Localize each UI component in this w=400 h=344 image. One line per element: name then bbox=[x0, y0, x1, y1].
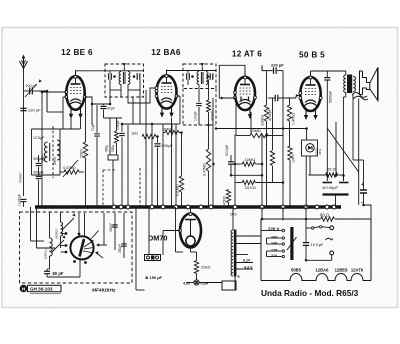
DM70 anode bar bbox=[185, 219, 196, 221]
tube V2 12BA6 grids bbox=[161, 86, 172, 88]
svg-text:MF461kHz: MF461kHz bbox=[92, 288, 116, 294]
DM70 wires bbox=[190, 207, 192, 213]
svg-text:OSCILL: OSCILL bbox=[44, 248, 48, 259]
resistor 33Kohm bbox=[242, 180, 255, 184]
switch arm diagonal bbox=[63, 160, 78, 177]
IF2 lower dashed section bbox=[182, 89, 184, 126]
svg-text:1kΩ: 1kΩ bbox=[131, 132, 138, 136]
wire down from coupling cap bbox=[282, 71, 284, 136]
IF2 secondary coil bbox=[206, 72, 208, 85]
svg-text:10MΩ: 10MΩ bbox=[245, 157, 256, 162]
svg-text:20KΩ: 20KΩ bbox=[53, 156, 57, 165]
wire grid coupling down bbox=[234, 135, 236, 208]
wire screen bbox=[91, 104, 93, 124]
wire 12AT6 cathode down bbox=[250, 112, 252, 135]
svg-text:110: 110 bbox=[271, 254, 277, 258]
svg-text:330µ: 330µ bbox=[111, 145, 115, 152]
tube V4 50B5 cathode bbox=[305, 100, 316, 103]
capacitor 100KpF antenna bottom bbox=[21, 198, 27, 200]
svg-text:70pF: 70pF bbox=[91, 123, 95, 131]
filament ballast coil bbox=[231, 230, 233, 276]
IF1 trimmer cap left bbox=[108, 73, 110, 80]
svg-text:38%: 38% bbox=[318, 149, 322, 155]
tube V1 12BE6 side pins bbox=[65, 91, 68, 94]
tuning arrow top bbox=[92, 231, 99, 239]
svg-text:12AT6: 12AT6 bbox=[351, 268, 364, 273]
wire 12BE6 grid1 to osc bbox=[41, 92, 43, 207]
resistor 0.47Mohm osc bbox=[64, 170, 79, 174]
right side caps of tuning box bbox=[114, 213, 116, 250]
antenna coil bbox=[61, 222, 63, 236]
badge underline bbox=[30, 293, 61, 295]
tuning gang circle bbox=[70, 236, 93, 259]
vertical 12BA6 heater wires bbox=[171, 118, 173, 207]
svg-text:5000pF: 5000pF bbox=[329, 90, 333, 103]
tube V1 12BE6 cathode bbox=[70, 99, 81, 102]
IF2 primary coil bbox=[197, 72, 199, 85]
svg-text:88 Ω: 88 Ω bbox=[320, 213, 329, 218]
svg-text:AEREO: AEREO bbox=[55, 228, 59, 239]
oscillator box bbox=[32, 128, 81, 130]
svg-text:10 KµF: 10 KµF bbox=[311, 242, 325, 247]
svg-text:250pF: 250pF bbox=[118, 244, 122, 253]
speaker frame bbox=[360, 71, 363, 95]
tap 4.3V bbox=[236, 268, 253, 270]
badge box bbox=[28, 285, 62, 291]
tube V3 12AT6 envelope bbox=[235, 77, 255, 110]
speaker return wires bbox=[352, 95, 354, 161]
tube V2 12BA6 cathode bbox=[161, 98, 172, 101]
wires mid rails bbox=[151, 124, 153, 207]
tube V4 50B5 grids bbox=[305, 88, 316, 90]
osc coil dashed bbox=[52, 126, 54, 178]
svg-text:220 pF: 220 pF bbox=[28, 108, 41, 113]
rectifier bbox=[302, 140, 318, 156]
wire from plate supply bbox=[335, 122, 337, 175]
wire 12BA6 screen bbox=[177, 95, 181, 97]
tube V3 12AT6 top pin bbox=[244, 76, 247, 79]
svg-text:12 AT 6: 12 AT 6 bbox=[232, 50, 262, 59]
svg-text:125: 125 bbox=[271, 249, 277, 253]
cap 50KpF bbox=[155, 143, 161, 145]
resistor 22Kohm bbox=[83, 142, 87, 158]
wire grid2 bbox=[46, 91, 48, 112]
output transformer core bbox=[347, 75, 352, 94]
svg-text:12,5µF: 12,5µF bbox=[33, 136, 45, 140]
ballast taps bbox=[236, 235, 261, 237]
wires near 50B5 cathode bbox=[268, 135, 283, 137]
phono box bbox=[222, 281, 236, 290]
IF1 trimmer cap right bbox=[136, 73, 138, 80]
volume wiper arrow with 5000pF bbox=[212, 98, 214, 207]
svg-text:4,3 V: 4,3 V bbox=[244, 266, 253, 270]
svg-text:140: 140 bbox=[271, 242, 277, 246]
rail y118 left bbox=[104, 117, 123, 119]
wire 12AT6 plate to coupling cap bbox=[262, 65, 273, 70]
wire 50B5 grid bbox=[296, 94, 299, 97]
tube V1 12BE6 envelope bbox=[66, 76, 84, 110]
extra verticals bbox=[171, 118, 173, 124]
tuning arrow lower bbox=[97, 253, 104, 258]
tuning gang rotor bar bbox=[80, 239, 85, 257]
IF1 core bbox=[122, 72, 124, 84]
resistor 0.47Mohm grid bbox=[287, 105, 291, 121]
tube V2 12BA6 top pin bbox=[165, 74, 168, 77]
tube V2 12BA6 plate bbox=[162, 82, 172, 84]
tuning gang vanes bbox=[84, 242, 92, 248]
svg-text:345pF: 345pF bbox=[109, 223, 113, 232]
svg-text:47µF: 47µF bbox=[107, 107, 116, 111]
svg-text:470KpF: 470KpF bbox=[268, 109, 272, 121]
tube V3 12AT6 heater arrows bbox=[249, 108, 251, 116]
cap 47pF bbox=[101, 105, 107, 107]
svg-text:22KΩ: 22KΩ bbox=[80, 149, 84, 158]
svg-text:GH 36-103: GH 36-103 bbox=[30, 287, 53, 292]
badge logo bbox=[20, 285, 28, 293]
tube V3 12AT6 plate bbox=[240, 84, 250, 86]
tube V4 50B5 envelope bbox=[300, 77, 320, 111]
IF2 tuning arrow bbox=[201, 63, 204, 66]
padder cap 80pF bbox=[44, 270, 50, 272]
wires to gang right bbox=[103, 213, 105, 245]
svg-text:5000pF: 5000pF bbox=[225, 145, 229, 157]
resistor 47Kohm bbox=[226, 190, 230, 203]
wires bottom middle bbox=[175, 207, 177, 252]
tube V4 50B5 plate bbox=[306, 84, 316, 86]
svg-text:Unda Radio - Mod. R65/3: Unda Radio - Mod. R65/3 bbox=[261, 288, 359, 298]
svg-text:D73: D73 bbox=[230, 213, 237, 217]
capacitor 220pF antenna bbox=[20, 107, 27, 109]
svg-text:⊗ 150 µF: ⊗ 150 µF bbox=[145, 275, 163, 280]
cap 5000pF AF bbox=[228, 161, 234, 163]
tube V2 12BA6 heater arrows bbox=[161, 107, 163, 115]
on-off switch bbox=[306, 227, 312, 229]
dashed corner left bbox=[102, 170, 104, 207]
DM70 top pin bbox=[189, 213, 192, 216]
wire antenna down bbox=[23, 68, 25, 196]
DM70 side pin bbox=[179, 229, 182, 232]
wire IF1 sec to 12BA6 grid bbox=[128, 88, 157, 103]
wire 12BE6 plate right pin bbox=[85, 97, 110, 104]
IF transformer 2 can bbox=[183, 64, 216, 89]
rail y124 bbox=[122, 123, 172, 125]
tuning arrow right bbox=[98, 244, 108, 246]
osc coil 2 bbox=[57, 140, 60, 160]
output transformer T2 primary bbox=[344, 75, 346, 93]
resistor 135ohm cathode bbox=[288, 146, 292, 160]
IF2 bottom components 100pF 470Kohm bbox=[198, 85, 200, 103]
speaker flexible leads bbox=[352, 93, 367, 98]
svg-text:FERRIT: FERRIT bbox=[19, 172, 23, 183]
svg-text:50 B 5: 50 B 5 bbox=[299, 51, 325, 60]
line cord ballast bbox=[290, 227, 293, 260]
bottom edge with heater bumps bbox=[261, 274, 371, 281]
tube V4 50B5 heater arrows bbox=[305, 109, 307, 117]
resistor 6.8Mohm bbox=[179, 176, 183, 192]
tube V3 12AT6 cathode bbox=[240, 100, 251, 103]
osc coil 1 bbox=[45, 142, 48, 162]
svg-text:33 KΩ: 33 KΩ bbox=[245, 185, 256, 190]
tube V3 12AT6 grids bbox=[240, 87, 251, 89]
tuning wires bbox=[61, 233, 67, 235]
wire plate rail bbox=[76, 70, 144, 72]
svg-text:160: 160 bbox=[271, 236, 277, 240]
components 300/330 pair bbox=[109, 118, 111, 155]
tube V2 12BA6 side pins bbox=[155, 90, 158, 93]
svg-text:40+40µF: 40+40µF bbox=[322, 185, 339, 190]
svg-text:470KΩ: 470KΩ bbox=[211, 110, 215, 121]
wire to converter grid bbox=[39, 91, 47, 112]
svg-text:330KΩ: 330KΩ bbox=[261, 115, 265, 126]
scanned page bbox=[0, 0, 1, 1]
tuning section dashed enclosure bbox=[20, 212, 133, 283]
tube V4 50B5 top pin bbox=[309, 76, 312, 79]
svg-text:220 pF: 220 pF bbox=[271, 63, 284, 68]
svg-text:50B5: 50B5 bbox=[291, 268, 302, 273]
svg-text:0,47MΩ: 0,47MΩ bbox=[292, 113, 296, 125]
resistor 330Kohm bbox=[264, 105, 268, 121]
screen cap 70pF bbox=[94, 133, 100, 135]
svg-text:15 Ω: 15 Ω bbox=[327, 167, 336, 172]
IF2 core bbox=[200, 72, 202, 84]
tube V2 12BA6 envelope bbox=[157, 75, 177, 108]
power section box bbox=[261, 218, 321, 220]
IF1 bottom wires bbox=[110, 89, 121, 91]
trimmer arrows bbox=[62, 218, 74, 230]
wire B+ rail bbox=[216, 128, 307, 130]
IF1 tuning arrow bbox=[123, 63, 126, 66]
switch lower contact bbox=[326, 238, 334, 240]
svg-text:300µ: 300µ bbox=[105, 145, 109, 152]
svg-text:80 pF: 80 pF bbox=[53, 271, 64, 276]
IF2 trimmer cap left bbox=[186, 73, 188, 80]
coupling capacitor 220pF bbox=[273, 67, 275, 74]
wire 50B5 plate rail to output transformer bbox=[311, 70, 347, 72]
svg-text:12 BE 6: 12 BE 6 bbox=[61, 48, 93, 57]
diagonal wire bbox=[328, 129, 359, 173]
tube V1 12BE6 grids bbox=[70, 87, 81, 89]
DM70 target circle bbox=[186, 236, 195, 246]
dial lamp bbox=[194, 280, 199, 285]
phono jack bbox=[145, 255, 161, 261]
svg-text:DM70: DM70 bbox=[148, 234, 167, 243]
IF1 primary coil bbox=[119, 72, 121, 85]
wire osc cathode bbox=[63, 96, 66, 98]
svg-text:100KpF: 100KpF bbox=[18, 194, 22, 206]
svg-text:6,1V: 6,1V bbox=[243, 259, 251, 263]
wire 12BA6 plate rail bbox=[167, 70, 217, 72]
tap 6.1V bbox=[236, 262, 253, 264]
capacitor 10KuF mains bbox=[303, 242, 310, 244]
svg-text:100pF: 100pF bbox=[194, 111, 198, 121]
capacitor 5000pF plate bbox=[324, 77, 330, 79]
dashed vertical bbox=[139, 168, 141, 207]
IF1 secondary coil bbox=[128, 72, 130, 85]
cap 10KpF bbox=[119, 132, 125, 134]
12AT6 grid loop wire bbox=[219, 65, 245, 98]
lamp wires bbox=[186, 282, 194, 284]
tube V5 DM70 envelope bbox=[180, 214, 201, 248]
wire x128 down bbox=[127, 125, 129, 207]
wire lamp left bbox=[148, 245, 150, 255]
12AT6 diode plates bbox=[240, 97, 242, 102]
antenna bbox=[23, 58, 25, 68]
wire AVC mid bbox=[231, 174, 262, 176]
IF transformer 1 can bbox=[105, 64, 144, 97]
grid wire AVC bbox=[42, 91, 66, 93]
resistor 22Kohm DM70 bbox=[194, 261, 198, 274]
oscillator coil bbox=[50, 238, 53, 256]
ground bus bbox=[35, 205, 341, 208]
resistor 1Mohm AF bbox=[272, 98, 274, 150]
svg-text:135 V: 135 V bbox=[292, 153, 296, 163]
svg-text:12 BA6: 12 BA6 bbox=[151, 48, 181, 57]
svg-text:12BA6: 12BA6 bbox=[315, 268, 329, 273]
wires under 12BE6 bbox=[70, 118, 72, 129]
wires ballast bottom bbox=[234, 277, 236, 291]
tap bracket wires bbox=[261, 230, 267, 232]
tube V1 12BE6 plate bbox=[71, 83, 81, 85]
tube V3 12AT6 side pins bbox=[234, 91, 237, 94]
IF2 trimmer cap right bbox=[209, 73, 211, 80]
gang terminals bbox=[65, 232, 68, 235]
svg-text:47KΩ: 47KΩ bbox=[223, 196, 227, 205]
volume potentiometer 0.47Mohm bbox=[206, 149, 210, 171]
output transformer secondary bbox=[353, 77, 355, 92]
speaker cone bbox=[370, 68, 378, 101]
tube V1 12BE6 top pin bbox=[74, 75, 77, 78]
tube V1 12BE6 heater arrows bbox=[70, 108, 72, 116]
wires inside power box bbox=[282, 207, 284, 221]
svg-text:0,47MΩ: 0,47MΩ bbox=[203, 163, 207, 176]
junction dots bbox=[46, 90, 49, 93]
svg-text:22kΩ: 22kΩ bbox=[201, 265, 210, 270]
svg-text:12BE6: 12BE6 bbox=[335, 268, 348, 273]
svg-text:H: H bbox=[22, 287, 26, 293]
tube V4 50B5 side pins bbox=[299, 92, 302, 95]
bus junction beads bbox=[43, 205, 47, 209]
wire AF y98 bbox=[268, 97, 275, 99]
